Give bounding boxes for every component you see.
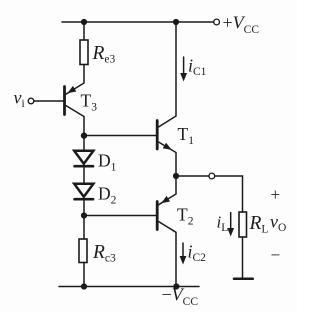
transistor T1 emitter arrow (NPN) (163, 143, 172, 150)
wire output terminal to RL (215, 176, 243, 212)
terminal vi open circle (28, 98, 34, 104)
node bottom-left junction (81, 283, 87, 289)
current arrow iC2 (180, 243, 187, 265)
terminal output open circle (209, 173, 215, 179)
transistor T2 emitter (159, 176, 177, 205)
wire top rail +VCC (62, 21, 214, 23)
transistor T2 bar (156, 202, 159, 230)
node A (T3 collector / D1 / T1 base) (81, 132, 87, 138)
current arrow iL (227, 213, 234, 237)
wire D1 to D2 (83, 166, 85, 184)
diode D1 (74, 151, 93, 167)
transistor T2 emitter arrow (PNP) (161, 196, 170, 203)
current arrow iC1 (180, 57, 187, 82)
transistor T1 emitter (159, 142, 177, 176)
wire node B to Rc3 (83, 216, 85, 240)
resistor Re3 (80, 40, 88, 65)
transistor T1 collector (159, 22, 177, 127)
wire T3 base input (34, 100, 65, 102)
transistor T3 emitter arrow (PNP) (67, 86, 76, 93)
wire node A to D1 (83, 136, 85, 151)
wire Rc3 bottom to -VCC rail (83, 263, 85, 287)
resistor RL (239, 212, 247, 237)
wire output node to terminal (176, 175, 209, 177)
svg-text:+: + (271, 185, 281, 204)
wire Re3 bottom to T3 emitter (66, 65, 84, 95)
wire RL to ground (242, 237, 244, 278)
wire D2 to node B (83, 199, 85, 216)
wire Re3 top (83, 22, 85, 40)
transistor T3 collector (66, 106, 84, 136)
resistor Rc3 (79, 239, 87, 263)
node top-right junction (173, 19, 179, 25)
transistor T2 collector (159, 222, 177, 287)
svg-text:−: − (271, 246, 281, 265)
node bottom-right junction (173, 283, 179, 289)
wire node A to T1 base (84, 135, 157, 137)
diode D2 (74, 184, 93, 200)
transistor T1 bar (156, 121, 159, 150)
transistor T3 bar (63, 87, 66, 115)
ground (234, 277, 253, 280)
wire node B to T2 base (84, 215, 157, 217)
output node (T1/T2 emitters) (173, 173, 179, 179)
wire bottom rail -VCC (59, 286, 199, 288)
node B (D2 / Rc3 / T2 base) (81, 212, 87, 218)
node top-left junction (81, 19, 87, 25)
terminal +VCC open circle (214, 19, 220, 25)
